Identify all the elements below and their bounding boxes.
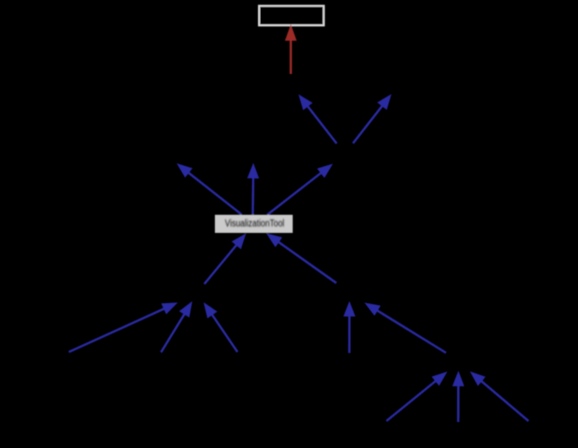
arrow edge B11: hidden row6 middle child to row5-right node	[343, 301, 355, 353]
arrow edge B5: hidden row3-right node to hidden row2-right node	[353, 94, 392, 143]
node box: top base-class (empty label, light border)	[259, 6, 324, 26]
arrow edge B7: hidden row5-right child to VisualizationTool	[266, 233, 336, 283]
arrow edge B8: hidden row6 far-left child to row5-left node	[69, 303, 178, 353]
arrow edge B3: VisualizationTool to hidden base row3-right	[267, 164, 333, 215]
arrow edge B13: hidden row7-left child to row6-right node	[386, 372, 447, 422]
arrow edge B14: hidden row7-middle child to row6-right node	[452, 371, 464, 422]
arrow edge B1: VisualizationTool to hidden base row3-left	[177, 163, 242, 214]
arrow edge: hidden node row2-center to top base-class box (red)	[285, 24, 297, 74]
arrow edge B4: hidden row3-right node to hidden row2-center node	[298, 94, 336, 143]
arrow edge B10: hidden row6 left-right child to row5-left node	[204, 302, 238, 352]
node box: VisualizationTool (highlighted current node)	[215, 215, 293, 233]
svg-text:VisualizationTool: VisualizationTool	[225, 218, 284, 229]
arrow edge B9: hidden row6 left-middle child to row5-left node	[161, 301, 192, 352]
arrow edge B2: VisualizationTool to hidden base row3-middle	[247, 163, 259, 215]
arrow edge B12: hidden row6 right child to row5-right node	[364, 303, 446, 353]
arrow edge B6: hidden row5-left child to VisualizationTool	[204, 233, 246, 284]
arrow edge B15: hidden row7-right child to row6-right node	[470, 371, 529, 421]
